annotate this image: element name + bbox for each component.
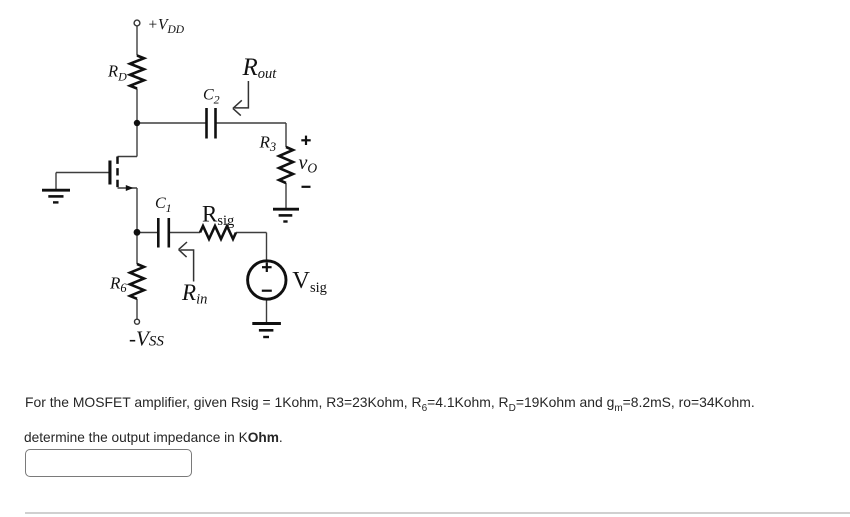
svg-text:Rout: Rout — [242, 54, 278, 82]
svg-text:-VSS: -VSS — [129, 327, 164, 351]
svg-text:RD: RD — [107, 62, 127, 84]
svg-text:vO: vO — [299, 152, 318, 175]
svg-text:R3: R3 — [259, 133, 277, 155]
svg-text:R6: R6 — [109, 274, 127, 296]
svg-text:C2: C2 — [203, 87, 220, 107]
svg-text:+VDD: +VDD — [148, 17, 185, 37]
svg-text:C1: C1 — [155, 195, 172, 215]
svg-text:Rsig: Rsig — [202, 202, 234, 230]
svg-text:Rin: Rin — [181, 280, 207, 307]
svg-text:Vsig: Vsig — [292, 267, 327, 296]
